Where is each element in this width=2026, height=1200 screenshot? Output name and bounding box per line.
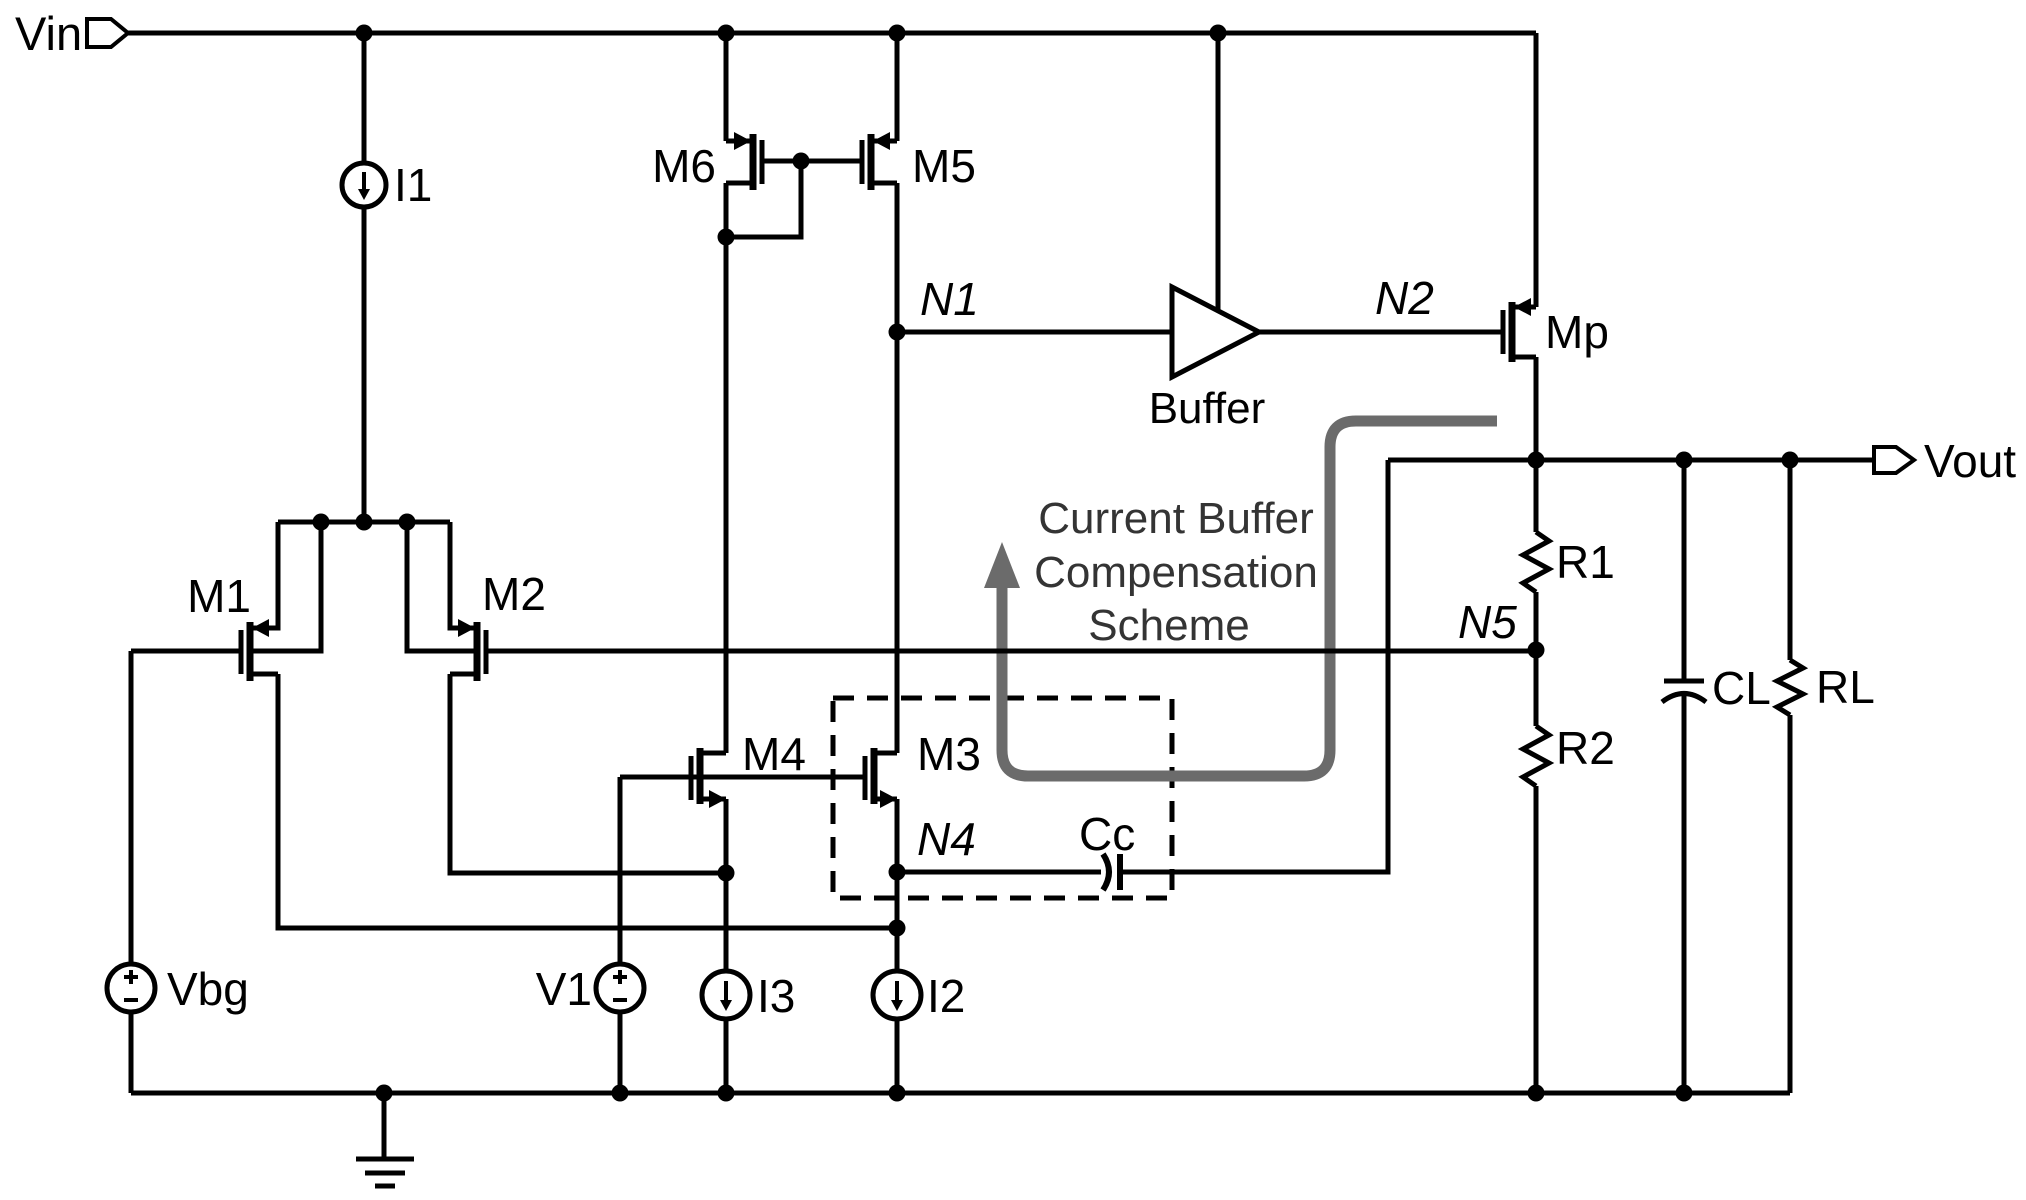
transistor M5 bbox=[862, 132, 897, 190]
junction Vout at RL bbox=[1782, 452, 1799, 469]
junction on rail at I1 bbox=[356, 25, 373, 42]
resistor R2 bbox=[1523, 726, 1549, 786]
wire M3 source through N4 to I2 bbox=[895, 799, 900, 971]
svg-text:Vbg: Vbg bbox=[167, 963, 249, 1015]
node N5 junction bbox=[1528, 642, 1545, 659]
junction M1 drain to N4 column bbox=[889, 920, 906, 937]
svg-text:N2: N2 bbox=[1375, 272, 1434, 324]
wire diff-pair tail bar bbox=[278, 520, 450, 525]
svg-text:N1: N1 bbox=[920, 273, 979, 325]
wire Vout output line bbox=[1388, 458, 1874, 463]
svg-text:I1: I1 bbox=[394, 159, 432, 211]
wire node N5 feedback to M2 gate bbox=[488, 649, 1536, 654]
output port Vout bbox=[1874, 447, 1914, 473]
svg-text:Mp: Mp bbox=[1545, 306, 1609, 358]
wire I2 to ground bus bbox=[895, 1019, 900, 1093]
wire V1 to ground bus bbox=[618, 1012, 623, 1093]
svg-text:RL: RL bbox=[1816, 661, 1875, 713]
current buffer compensation gray highlight path bbox=[1002, 421, 1497, 776]
svg-text:Vin: Vin bbox=[15, 7, 82, 60]
junction Vout at Mp drain bbox=[1528, 452, 1545, 469]
junction on rail at M6 bbox=[718, 25, 735, 42]
wire M1 drain down and over to N4 column bbox=[278, 674, 897, 928]
input port Vin bbox=[87, 19, 128, 47]
svg-text:Compensation: Compensation bbox=[1034, 548, 1318, 597]
svg-text:N5: N5 bbox=[1458, 596, 1517, 648]
junction on rail at buffer supply bbox=[1210, 25, 1227, 42]
wire Vbg riser bbox=[129, 651, 134, 964]
wire M1 gate to Vbg bbox=[131, 649, 241, 654]
svg-text:CL: CL bbox=[1712, 662, 1771, 714]
transistor M6 bbox=[726, 132, 762, 190]
annotation current buffer compensation scheme bbox=[1034, 494, 1318, 650]
junction M6 M5 gate node bbox=[793, 153, 810, 170]
svg-text:M1: M1 bbox=[187, 570, 251, 622]
resistor R1 bbox=[1523, 532, 1549, 592]
compensation scheme dashed box around M3 and Cc bbox=[833, 698, 1172, 898]
capacitor CL bbox=[1662, 681, 1706, 702]
wire node N1 to buffer input bbox=[897, 330, 1172, 335]
node N4 junction bbox=[889, 864, 906, 881]
wire R1 R2 column top bbox=[1534, 460, 1539, 532]
wire M6 drain column down to M4 drain bbox=[724, 183, 729, 753]
junction ground bus at CL bbox=[1676, 1085, 1693, 1102]
op-amp buffer U1 bbox=[1172, 287, 1259, 377]
wire M5 source riser bbox=[895, 33, 900, 141]
wire Vbg to ground bus bbox=[129, 1012, 134, 1093]
junction ground bus at R2 bbox=[1528, 1085, 1545, 1102]
svg-text:N4: N4 bbox=[917, 813, 976, 865]
junction Vout at CL bbox=[1676, 452, 1693, 469]
wire V1 riser bbox=[618, 777, 623, 964]
svg-text:V1: V1 bbox=[536, 963, 592, 1015]
junction tail bar I1 bbox=[356, 514, 373, 531]
junction ground bus at ground symbol bbox=[376, 1085, 393, 1102]
wire M4 source to I3 bbox=[724, 799, 729, 971]
wire M2 drain down and over to M4 source column bbox=[450, 674, 726, 873]
junction M6 drain diode tap bbox=[718, 229, 735, 246]
wire RL top bbox=[1788, 460, 1793, 660]
svg-text:M6: M6 bbox=[652, 140, 716, 192]
wire M6-M5 gate mirror link bbox=[764, 159, 862, 164]
current source I3 bbox=[702, 971, 750, 1019]
junction tail bar M1 bulk bbox=[313, 514, 330, 531]
junction on rail at M5 bbox=[889, 25, 906, 42]
svg-text:M2: M2 bbox=[482, 568, 546, 620]
junction tail bar M2 bulk bbox=[399, 514, 416, 531]
wire I1 branch from rail to tail bar bbox=[362, 33, 367, 522]
resistor RL bbox=[1777, 660, 1803, 715]
transistor Mp bbox=[1503, 298, 1536, 362]
current source I2 bbox=[873, 971, 921, 1019]
wire Vin top supply rail bbox=[128, 31, 1536, 36]
junction ground bus at I3 bbox=[718, 1085, 735, 1102]
wire M6 diode connection bbox=[726, 164, 801, 237]
junction ground bus at V1 bbox=[612, 1085, 629, 1102]
junction ground bus at I2 bbox=[889, 1085, 906, 1102]
transistor M4 bbox=[691, 748, 726, 808]
wire Mp drain to Vout node bbox=[1534, 357, 1539, 460]
node N1 junction bbox=[889, 324, 906, 341]
capacitor Cc bbox=[1103, 854, 1120, 890]
svg-text:R2: R2 bbox=[1556, 722, 1615, 774]
wire CL bottom bbox=[1682, 695, 1687, 1093]
svg-text:M4: M4 bbox=[742, 728, 806, 780]
svg-text:M3: M3 bbox=[917, 728, 981, 780]
wire RL bottom bbox=[1788, 715, 1793, 1093]
transistor M1 bbox=[241, 522, 321, 681]
wire R1 to N5 bbox=[1534, 592, 1539, 726]
ground bbox=[356, 1093, 414, 1186]
wire ground bus bbox=[131, 1091, 1790, 1096]
wire Cc right plate to Vout bbox=[1121, 460, 1388, 872]
wire I3 to ground bus bbox=[724, 1019, 729, 1093]
svg-text:Buffer: Buffer bbox=[1149, 384, 1266, 433]
svg-text:I3: I3 bbox=[757, 970, 795, 1022]
wire node N4 to Cc left plate bbox=[897, 870, 1101, 875]
transistor M2 bbox=[407, 522, 486, 681]
svg-text:Scheme: Scheme bbox=[1088, 601, 1249, 650]
gray arrowhead bbox=[984, 542, 1020, 588]
wire M5 drain column through N1 to M3 drain bbox=[895, 183, 900, 753]
wire CL top bbox=[1682, 460, 1687, 681]
voltage source Vbg bbox=[107, 964, 155, 1012]
wire R2 to ground bus bbox=[1534, 786, 1539, 1093]
wire buffer supply from rail bbox=[1216, 33, 1221, 311]
svg-text:Current Buffer: Current Buffer bbox=[1038, 494, 1314, 543]
transistor M3 bbox=[865, 748, 897, 808]
wire Mp source from rail bbox=[1534, 33, 1539, 307]
svg-text:R1: R1 bbox=[1556, 536, 1615, 588]
svg-text:Cc: Cc bbox=[1079, 808, 1135, 860]
junction M2 drain to M4 source column bbox=[718, 865, 735, 882]
svg-text:I2: I2 bbox=[927, 970, 965, 1022]
current source I1 bbox=[342, 163, 386, 207]
voltage source V1 bbox=[596, 964, 644, 1012]
wire M6 source riser bbox=[724, 33, 729, 141]
svg-text:Vout: Vout bbox=[1924, 435, 2016, 487]
wire node N2 buffer output to Mp gate bbox=[1259, 330, 1503, 335]
wire M4 M3 shared gate line from V1 bbox=[620, 775, 863, 780]
svg-text:M5: M5 bbox=[912, 140, 976, 192]
